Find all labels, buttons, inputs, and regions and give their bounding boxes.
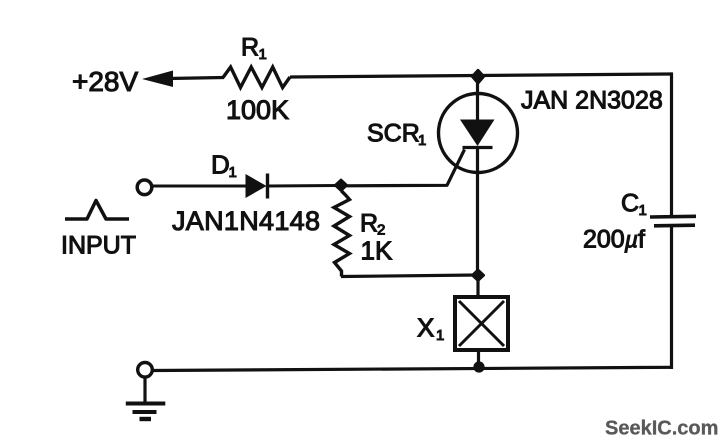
svg-text:R: R	[241, 34, 259, 62]
label JAN 2N3028	[521, 87, 663, 115]
resistor R1	[223, 67, 290, 88]
watermark SeekIC.com	[605, 418, 718, 440]
ground symbol	[126, 404, 166, 420]
label D1	[211, 150, 237, 182]
right rail lower segment	[670, 226, 673, 369]
SCR1 anode triangle	[460, 120, 495, 147]
svg-text:D: D	[211, 150, 230, 180]
svg-text:JAN 2N3028: JAN 2N3028	[521, 87, 663, 115]
value label 100K	[226, 95, 289, 125]
value label 1K	[361, 236, 393, 266]
wire D1 to junction	[268, 184, 339, 188]
diode D1 triangle	[246, 174, 267, 198]
wire R1 to top-right corner	[290, 74, 672, 77]
SCR1 circle	[439, 94, 518, 173]
label R1	[241, 34, 267, 64]
svg-text:X: X	[417, 313, 434, 343]
value label 200uf	[583, 226, 645, 254]
wire input to D1	[152, 185, 247, 188]
arrowhead into +28V	[142, 71, 173, 88]
capacitor C1 bottom plate	[654, 223, 695, 227]
wire SCR cathode down to junction	[476, 148, 479, 276]
junction node input/gate/R2	[335, 180, 347, 191]
SCR1 cathode bar	[463, 146, 493, 149]
svg-text:SeekIC.com: SeekIC.com	[605, 418, 718, 440]
svg-text:SCR: SCR	[367, 120, 420, 148]
svg-text:INPUT: INPUT	[61, 232, 136, 260]
svg-text:C: C	[621, 190, 639, 218]
svg-text:R: R	[360, 210, 378, 238]
svg-text:JAN1N4148: JAN1N4148	[172, 206, 320, 236]
wire ground stub	[143, 377, 146, 403]
input pulse symbol	[65, 201, 129, 220]
svg-text:1: 1	[418, 132, 426, 149]
svg-text:1K: 1K	[361, 236, 393, 266]
junction node at SCR anode	[472, 70, 484, 84]
ground terminal circle	[138, 363, 153, 378]
label JAN1N4148	[172, 206, 320, 236]
label INPUT	[61, 232, 136, 260]
bottom rail wire	[153, 367, 673, 370]
wire R2 bottom to cathode junction	[341, 275, 478, 277]
junction node cathode/X1	[472, 270, 484, 281]
resistor R2	[334, 191, 350, 277]
label R2	[360, 210, 385, 239]
wire arrow to R1	[168, 78, 224, 79]
capacitor C1 top plate	[650, 215, 696, 219]
wire junction to X1	[476, 275, 479, 297]
junction node on bottom rail	[473, 361, 484, 372]
svg-text:1: 1	[259, 46, 267, 63]
wire X1 to bottom rail	[477, 350, 480, 368]
label X1	[417, 313, 444, 345]
right rail upper segment	[670, 74, 672, 216]
svg-text:1: 1	[639, 202, 647, 219]
diode D1 cathode bar	[266, 174, 269, 199]
svg-text:200µf: 200µf	[583, 226, 645, 254]
node +28V label	[72, 66, 138, 97]
svg-text:+28V: +28V	[72, 66, 138, 97]
svg-text:100K: 100K	[226, 95, 289, 125]
label SCR1	[367, 120, 426, 150]
input terminal circle	[137, 180, 152, 195]
wire junction to SCR triangle	[476, 76, 479, 121]
label C1	[621, 190, 647, 220]
load X1 box	[455, 297, 508, 350]
svg-text:1: 1	[436, 327, 444, 344]
wire gate of SCR	[346, 150, 465, 186]
svg-text:1: 1	[229, 164, 237, 181]
